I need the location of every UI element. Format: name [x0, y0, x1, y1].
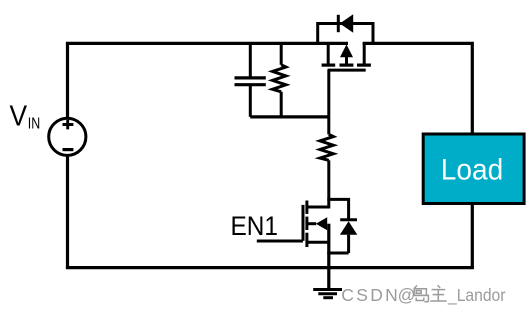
resistor R1 (parallel with C1) [273, 43, 286, 117]
wire: bottom rail [66, 266, 474, 269]
wire: top rail from Q1 source right then down to Load [363, 43, 473, 132]
transistor Q1 (high-side FET) [322, 43, 371, 70]
svg-text:Load: Load [441, 154, 503, 187]
Q1 gate plate [328, 69, 366, 72]
Q1 channel bar left [322, 63, 336, 66]
Q1 source contact vertical [363, 43, 366, 63]
wire: Q1 gate lead down to RC junction [327, 70, 330, 117]
wire: Vin negative lead down to bottom rail [66, 155, 69, 267]
transistor Q2 (low-side NMOS) [303, 201, 329, 268]
glyph 主 (approximated strokes) [430, 285, 446, 301]
svg-text:IN: IN [28, 116, 40, 133]
Q2 channel bar middle [305, 217, 308, 230]
watermark CSDN @岛主_Landor [341, 285, 505, 306]
source V_IN [49, 118, 86, 155]
svg-text:V: V [10, 100, 28, 132]
svg-text:EN1: EN1 [231, 211, 279, 241]
resistor R2 (gate string) [320, 117, 333, 209]
Q2 body arrow [307, 222, 316, 225]
body diode D1 of Q1 [318, 14, 373, 43]
wire: Q2 source/body down to bottom rail [327, 224, 330, 268]
Q2 source bar [307, 241, 329, 244]
Q2 drain bar [307, 206, 329, 209]
Q1 channel bar right [357, 63, 371, 66]
svg-text:CSDN: CSDN [341, 285, 398, 305]
wire: EN1 gate lead [257, 240, 303, 243]
node: RC junction wire [250, 115, 328, 118]
Q1 body arrow [345, 56, 348, 64]
svg-text:@: @ [398, 285, 416, 305]
wire: top rail from Vin to Q1 drain side [66, 42, 348, 45]
Q2 channel bar top [305, 201, 308, 214]
svg-text:_Landor: _Landor [447, 285, 506, 306]
Load block [423, 134, 524, 204]
body diode D2 of Q2 [327, 199, 357, 253]
capacitor C1 [235, 43, 266, 117]
wire: Vin positive lead up to top rail [66, 43, 69, 118]
ground [313, 268, 342, 298]
wire: Load bottom lead down to bottom rail [471, 204, 474, 268]
Q2 gate plate [302, 205, 305, 241]
Q1 channel bar middle [340, 63, 354, 66]
Q1 drain contact vertical [327, 43, 330, 63]
Q2 channel bar bottom [305, 233, 308, 247]
glyph 岛 (approximated strokes) [414, 285, 429, 301]
